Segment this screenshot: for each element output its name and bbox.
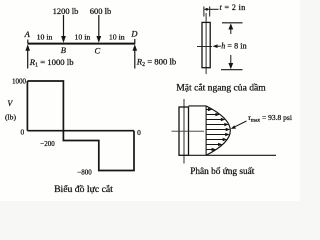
svg-text:R2 = 800 lb: R2 = 800 lb — [136, 57, 177, 69]
section horizontal centerline — [197, 46, 212, 48]
leader line to tau max — [231, 121, 247, 129]
svg-text:D: D — [130, 29, 138, 39]
section vertical centerline — [205, 13, 207, 74]
svg-text:−200: −200 — [40, 140, 55, 148]
svg-text:1000: 1000 — [12, 78, 27, 86]
svg-text:−800: −800 — [77, 169, 92, 177]
svg-text:C: C — [94, 46, 100, 56]
section rectangle (cross-section) — [202, 22, 210, 67]
svg-text:0: 0 — [20, 127, 24, 136]
svg-text:10 in: 10 in — [37, 32, 53, 41]
reaction arrow R2 — [133, 44, 138, 68]
svg-text:(lb): (lb) — [5, 113, 16, 122]
force arrow 1200 lb — [61, 15, 66, 43]
h leader arrow to section — [213, 44, 221, 48]
svg-text:A: A — [24, 29, 31, 39]
svg-text:B: B — [61, 45, 66, 55]
beam AD — [28, 43, 136, 45]
t dimension ticks — [204, 7, 210, 17]
h dimension top bar — [222, 22, 243, 24]
stress section vertical centerline — [183, 99, 185, 164]
shear diagram baseline — [27, 130, 134, 132]
shear curve — [27, 81, 134, 171]
stress section horizontal centerline — [172, 130, 205, 132]
svg-text:Phân bố ứng suất: Phân bố ứng suất — [190, 166, 255, 177]
svg-text:600 lb: 600 lb — [90, 6, 112, 16]
h dimension bottom bar — [221, 69, 243, 71]
stress section rectangle — [179, 107, 189, 155]
stress arrows — [206, 108, 230, 151]
stress parabola envelope — [206, 106, 230, 155]
force arrow 600 lb — [96, 15, 101, 43]
svg-text:1200 lb: 1200 lb — [53, 6, 79, 16]
shear diagram axis — [26, 81, 28, 131]
svg-text:Biểu đồ lực cắt: Biểu đồ lực cắt — [54, 184, 113, 195]
t dimension line with arrows — [204, 8, 219, 11]
svg-text:Mặt cắt ngang của dầm: Mặt cắt ngang của dầm — [176, 82, 266, 93]
svg-text:0: 0 — [137, 128, 141, 137]
svg-text:t = 2 in: t = 2 in — [220, 3, 246, 12]
bottom baseline extended — [189, 154, 276, 156]
svg-text:10 in: 10 in — [74, 32, 90, 41]
svg-text:10 in: 10 in — [109, 32, 125, 41]
reaction arrow R1 — [25, 44, 30, 68]
h dimension upper arrow — [228, 23, 233, 34]
top connector line — [189, 105, 207, 107]
beam end tick at A — [27, 40, 29, 44]
svg-text:h = 8 in: h = 8 in — [221, 41, 247, 50]
stress axis vertical line — [205, 106, 207, 155]
h dimension lower arrow — [228, 55, 233, 69]
beam end tick at D — [134, 39, 136, 44]
